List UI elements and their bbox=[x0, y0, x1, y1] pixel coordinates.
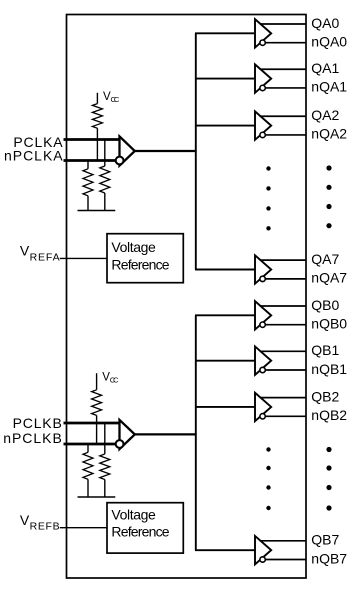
wire QB0 output bbox=[260, 305, 306, 307]
ground rail (A bias network) bbox=[78, 210, 116, 212]
wire nQB0 output bbox=[263, 324, 306, 326]
svg-text:nQB7: nQB7 bbox=[311, 550, 347, 566]
resistor pull-down on PCLKB bbox=[100, 454, 110, 480]
svg-text:nQB0: nQB0 bbox=[311, 315, 347, 331]
svg-text:QB0: QB0 bbox=[311, 297, 339, 313]
svg-text:nPCLKA: nPCLKA bbox=[4, 147, 63, 163]
wire nQB2 output bbox=[263, 415, 306, 417]
wire bus branch to QB1 driver bbox=[195, 360, 256, 362]
svg-text:nQA0: nQA0 bbox=[311, 33, 347, 49]
wire input buffer A output to distribution bus bbox=[135, 150, 197, 152]
wire QB7 output bbox=[260, 540, 306, 542]
wire input buffer B output to distribution bus bbox=[135, 433, 197, 435]
output driver QB0 bbox=[255, 301, 271, 329]
PCLKB input line bbox=[64, 422, 120, 425]
svg-text:QA1: QA1 bbox=[311, 60, 339, 76]
wire QB1 output bbox=[260, 350, 306, 352]
wire bus branch to QB0 driver bbox=[195, 314, 256, 316]
PCLKA input line bbox=[64, 138, 120, 141]
output driver QA0 bbox=[255, 19, 271, 47]
svg-text:QB1: QB1 bbox=[311, 342, 339, 358]
output driver QB1 bbox=[255, 346, 271, 374]
wire nPCLKA to pull-down resistor bbox=[87, 161, 89, 169]
resistor pull-down on nPCLKB bbox=[83, 452, 93, 479]
svg-text:QA7: QA7 bbox=[311, 251, 339, 267]
ellipsis dots (bank A internal) bbox=[266, 166, 270, 230]
wire nQA0 output bbox=[263, 42, 306, 44]
inverting output bubble (nQB0) bbox=[260, 322, 265, 327]
ellipsis dots (bank B internal) bbox=[266, 447, 270, 510]
wire V_REFB to voltage reference block bbox=[60, 527, 107, 529]
resistor pull-down on PCLKA bbox=[100, 166, 110, 193]
svg-text:nQA1: nQA1 bbox=[311, 79, 347, 95]
svg-text:nQB2: nQB2 bbox=[311, 407, 347, 423]
inverting output bubble (nQA2) bbox=[260, 132, 265, 137]
nPCLKB input line bbox=[64, 443, 117, 446]
svg-text:CC: CC bbox=[110, 375, 119, 384]
wire bus branch to QA0 driver bbox=[195, 32, 256, 34]
svg-text:REFB: REFB bbox=[30, 521, 60, 533]
inverting output bubble (nQA0) bbox=[260, 40, 265, 45]
svg-text:QA0: QA0 bbox=[311, 15, 339, 31]
wire V_CC stub (A) bbox=[96, 93, 98, 104]
distribution bus (B bank) bbox=[195, 315, 197, 550]
differential input buffer (B) bbox=[120, 420, 135, 449]
svg-text:REFA: REFA bbox=[30, 251, 60, 263]
distribution bus (A bank) bbox=[195, 33, 197, 269]
wire bus branch to QA1 driver bbox=[195, 78, 256, 80]
resistor pull-down on nPCLKA bbox=[83, 169, 93, 196]
inverting output bubble (nQB2) bbox=[260, 414, 265, 419]
svg-text:QA2: QA2 bbox=[311, 107, 339, 123]
svg-text:V: V bbox=[20, 243, 30, 259]
resistor pull-up to V_CC (B) bbox=[92, 390, 102, 416]
svg-text:nQB1: nQB1 bbox=[311, 361, 347, 377]
inverting output bubble (nQB1) bbox=[260, 367, 265, 372]
svg-text:Reference: Reference bbox=[111, 256, 169, 272]
inverting output bubble (nQA7) bbox=[260, 276, 265, 281]
wire nQA7 output bbox=[263, 278, 306, 280]
voltage reference block (A) bbox=[107, 234, 183, 283]
wire nPCLKB to pull-down resistor bbox=[87, 444, 89, 452]
svg-text:V: V bbox=[20, 512, 30, 528]
differential input buffer (A) bbox=[120, 136, 135, 165]
wire PCLKA to pull-down resistor (crosses nPCLKA) bbox=[104, 140, 106, 167]
ground rail (B bias network) bbox=[78, 496, 116, 498]
wire pull-up resistor to nPCLKB line bbox=[96, 415, 98, 444]
wire QA2 output bbox=[260, 115, 306, 117]
wire nQA2 output bbox=[263, 134, 306, 136]
wire nQA1 output bbox=[263, 87, 306, 89]
ellipsis dots (bank B outputs) bbox=[326, 447, 331, 511]
inverting input bubble (nPCLKB) bbox=[116, 440, 124, 448]
output driver QA7 bbox=[255, 255, 271, 283]
wire QB2 output bbox=[260, 397, 306, 399]
device outline box bbox=[67, 15, 307, 579]
wire V_REFA to voltage reference block bbox=[60, 257, 107, 259]
wire PCLKB to pull-down resistor (crosses nPCLKB) bbox=[104, 423, 106, 454]
svg-text:nQA7: nQA7 bbox=[311, 270, 347, 286]
wire QA1 output bbox=[260, 68, 306, 70]
voltage reference block (B) bbox=[107, 503, 183, 553]
wire bus branch to QB7 driver bbox=[195, 549, 256, 551]
svg-text:Reference: Reference bbox=[111, 524, 169, 540]
output driver QB7 bbox=[255, 536, 271, 564]
svg-text:QB7: QB7 bbox=[311, 532, 339, 548]
svg-text:Voltage: Voltage bbox=[111, 506, 156, 522]
inverting input bubble (nPCLKA) bbox=[116, 157, 124, 165]
wire bus branch to QB2 driver bbox=[195, 406, 256, 408]
wire bus branch to QA2 driver bbox=[195, 125, 256, 127]
output driver QB2 bbox=[255, 393, 271, 421]
resistor pull-up to V_CC (A) bbox=[92, 104, 102, 129]
nPCLKA input line bbox=[64, 159, 117, 162]
svg-text:nPCLKB: nPCLKB bbox=[3, 430, 62, 446]
wire pull-up resistor to nPCLKA line bbox=[96, 128, 98, 160]
svg-text:Voltage: Voltage bbox=[111, 239, 156, 255]
svg-text:CC: CC bbox=[111, 95, 120, 104]
wire QA0 output bbox=[260, 23, 306, 25]
ellipsis dots (bank A outputs) bbox=[326, 165, 331, 228]
svg-text:nQA2: nQA2 bbox=[311, 126, 347, 142]
output driver QA2 bbox=[255, 111, 271, 139]
svg-text:PCLKB: PCLKB bbox=[13, 415, 62, 431]
inverting output bubble (nQB7) bbox=[260, 557, 265, 562]
inverting output bubble (nQA1) bbox=[260, 85, 265, 90]
output driver QA1 bbox=[255, 64, 271, 92]
svg-text:QB2: QB2 bbox=[311, 388, 339, 404]
wire nQB7 output bbox=[263, 559, 306, 561]
wire QA7 output bbox=[260, 259, 306, 261]
wire nQB1 output bbox=[263, 369, 306, 371]
wire bus branch to QA7 driver bbox=[195, 269, 256, 271]
wire V_CC stub (B) bbox=[96, 373, 98, 390]
